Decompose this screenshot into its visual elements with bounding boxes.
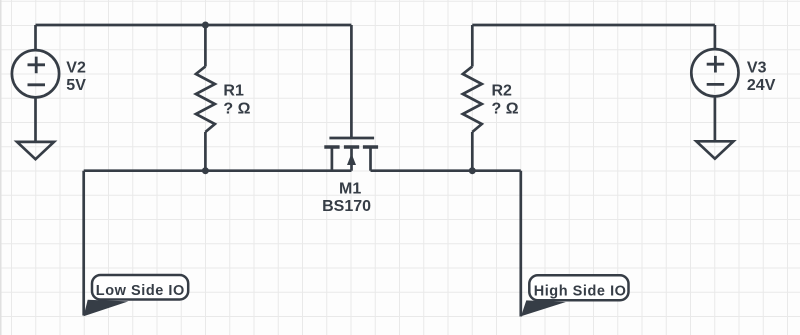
transistor M1 channel pads — [324, 145, 378, 149]
V3 plus sign — [707, 56, 725, 73]
svg-text:High Side IO: High Side IO — [534, 283, 627, 299]
callout tail High Side IO — [521, 300, 566, 316]
svg-text:? Ω: ? Ω — [223, 101, 250, 118]
V2 minus sign — [28, 83, 46, 86]
svg-text:R1: R1 — [223, 82, 244, 99]
wire V3 bottom lead — [714, 96, 717, 141]
wire high side drop — [519, 171, 522, 317]
junction dot R1 bottom — [202, 167, 209, 174]
transistor M1 gate bar — [329, 137, 374, 140]
voltage source V2 — [12, 50, 59, 97]
resistor R2 — [463, 66, 482, 132]
transistor M1 body shaft — [350, 149, 353, 171]
V3 minus sign — [707, 83, 725, 86]
svg-text:5V: 5V — [66, 77, 86, 94]
wire R2 top lead — [471, 25, 474, 67]
wire R2 bottom lead — [471, 132, 474, 171]
wire low side drop — [82, 171, 85, 316]
wire R1 top lead — [204, 25, 207, 67]
wire top rail right (R2 to V3) — [472, 24, 715, 27]
transistor M1 source leg — [331, 147, 334, 171]
junction dot rail left / R1 — [202, 22, 209, 29]
resistor R1 — [196, 66, 215, 132]
wire bottom right (high side) — [371, 169, 521, 172]
svg-text:R2: R2 — [492, 82, 513, 99]
canvas left edge line — [0, 0, 2, 335]
svg-text:? Ω: ? Ω — [492, 101, 519, 118]
junction dot R2 bottom — [469, 167, 476, 174]
ground below V2 — [17, 142, 54, 159]
ground below V3 — [696, 141, 733, 158]
svg-text:V2: V2 — [66, 59, 86, 76]
V2 plus sign — [28, 57, 46, 74]
voltage source V3 — [691, 49, 738, 96]
transistor M1 body arrow head — [347, 154, 356, 166]
wire top rail left (V2 to M1 gate) — [36, 24, 352, 27]
svg-text:V3: V3 — [747, 59, 767, 76]
callout box High Side IO — [529, 275, 628, 300]
transistor M1 drain leg — [369, 147, 372, 171]
wire M1 gate drop — [350, 25, 353, 138]
svg-text:24V: 24V — [747, 77, 776, 94]
callout box Low Side IO — [92, 275, 188, 300]
wire bottom left (low side) — [84, 169, 352, 172]
wire V3 top stub — [714, 25, 717, 49]
svg-text:BS170: BS170 — [322, 198, 371, 215]
svg-text:Low Side IO: Low Side IO — [96, 283, 185, 299]
wire V2 top stub — [34, 25, 37, 50]
callout tail Low Side IO — [84, 300, 129, 316]
wire V2 bottom lead — [34, 97, 37, 142]
svg-text:M1: M1 — [339, 180, 361, 197]
wire R1 bottom lead — [204, 132, 207, 171]
